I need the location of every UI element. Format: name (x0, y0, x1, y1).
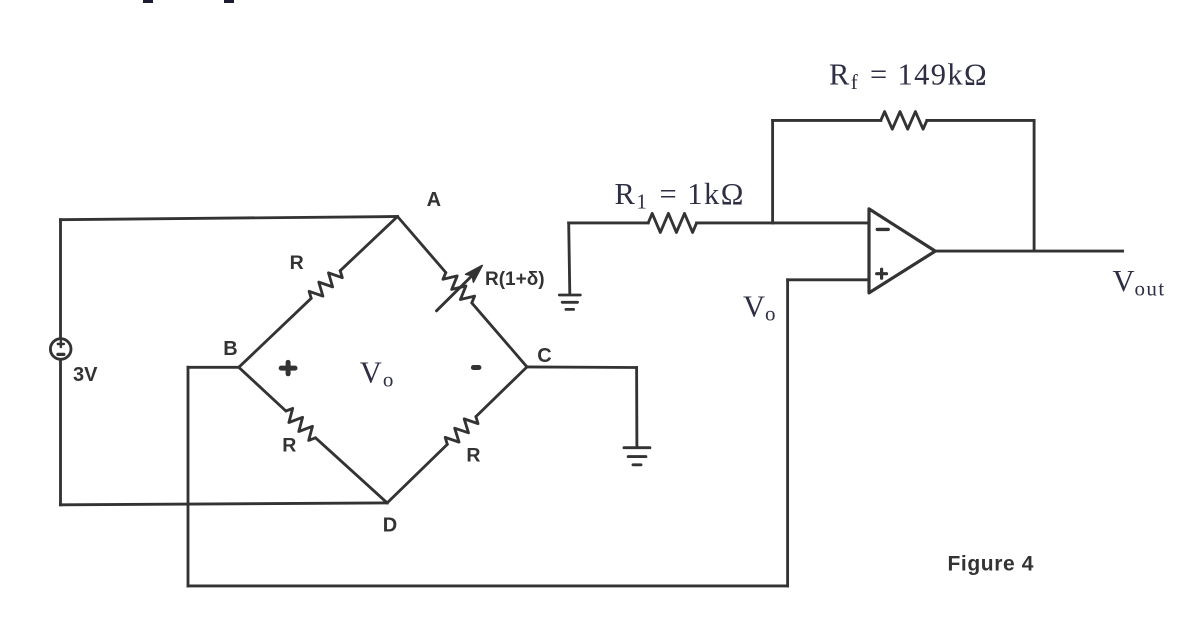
resistor Rf (881, 112, 927, 130)
wire: R1 input rail (569, 221, 649, 224)
wire: feedback right vertical to output (1033, 120, 1036, 251)
svg-text:Vo: Vo (743, 289, 776, 325)
svg-text:R: R (290, 252, 304, 274)
wire: op-amp + input (788, 278, 869, 281)
wire: bottom rail from source to node D (61, 503, 388, 505)
wire: op-amp output (935, 250, 1122, 253)
svg-text:Rf = 149kΩ: Rf = 149kΩ (829, 58, 988, 95)
wire: left vertical upper (source top) (59, 220, 62, 338)
op-amp U1 (869, 209, 935, 293)
arrow of variable resistor (437, 275, 473, 311)
wire: vertical down to ground at C branch (635, 368, 638, 447)
wire: feedback top rail right part (927, 119, 1034, 122)
ground (C branch) (624, 448, 650, 465)
svg-text:A: A (427, 189, 441, 211)
wire: feedback top rail left part (773, 119, 881, 122)
bridge - polarity mark (473, 365, 479, 370)
svg-text:R: R (466, 444, 480, 466)
wire: node B stub to left vertical (188, 366, 239, 369)
svg-text:R(1+δ): R(1+δ) (485, 269, 545, 290)
op-amp - symbol (877, 228, 888, 231)
wire: top rail from source to node A (61, 217, 398, 220)
svg-text:Figure 4: Figure 4 (948, 552, 1034, 575)
resistor R (B-D arm) (239, 367, 286, 411)
ground (R1 input) (559, 295, 580, 309)
wire: node C stub right (527, 365, 637, 368)
resistor R (A-B arm) (340, 217, 397, 271)
wire: vertical Vo branch up to op-amp + input (786, 280, 789, 586)
resistor R1 (648, 213, 696, 232)
svg-text:B: B (223, 338, 237, 360)
top cropped text artifact 2 (224, 0, 234, 3)
svg-text:3V: 3V (73, 364, 98, 386)
resistor R(1+d) (A-C arm, variable) (398, 217, 446, 273)
wire: long bottom rail to op-amp + branch (188, 584, 788, 587)
svg-text:Vo: Vo (360, 355, 394, 391)
wire: feedback left vertical (771, 120, 774, 222)
op-amp + symbol (877, 269, 887, 278)
wire: vertical from B stub down to bottom rail (187, 367, 190, 586)
bridge + polarity mark (281, 362, 295, 373)
wire: left vertical to ground at R1 input (569, 223, 570, 294)
svg-text:R: R (282, 434, 296, 456)
wire: left vertical lower (source bottom) (59, 360, 62, 504)
resistor R (C-D arm) (476, 367, 527, 417)
top cropped text artifact 1 (143, 0, 153, 3)
wire: R1 to op-amp - input (697, 221, 869, 224)
svg-text:C: C (537, 345, 551, 367)
voltage source V1 3V (50, 339, 71, 360)
svg-text:R1 = 1kΩ: R1 = 1kΩ (615, 177, 745, 214)
svg-text:Vout: Vout (1113, 264, 1166, 301)
svg-text:D: D (383, 514, 397, 536)
